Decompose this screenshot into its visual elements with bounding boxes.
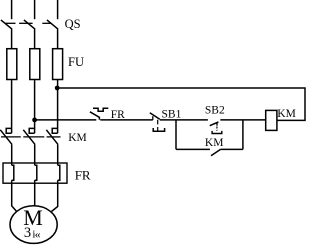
thermal relay FR heater jog pole 1 [12,165,14,180]
button SB1 fixed contact tick [152,116,154,120]
switch QS linkage dash 1 [6,22,16,24]
wire L2 FR to motor [34,180,36,206]
node control tap on L2 [32,118,37,123]
wire branch left vertical [175,120,177,149]
contact KM main pole 1 arc bracket [6,128,11,133]
contact KM linkage dash 3 [47,136,61,138]
switch QS linkage dash 2 [19,22,32,24]
svg-text:KM: KM [68,132,87,144]
wire SB2 to KM coil [220,119,265,121]
wire L2 QS to FU [34,29,36,49]
motor M body [10,206,57,244]
contact KM linkage dash 1 [1,136,21,138]
svg-text:FU: FU [68,55,84,69]
button SB1 blade [150,113,160,120]
wire L3 QS to FU [57,29,59,49]
wire L1 FR to motor [12,180,17,212]
fuse FU pole 3 [53,49,63,80]
wire L1 KM to FR heater [11,144,13,165]
node control tap on L3 [55,86,60,91]
button SB1 stem [157,120,159,131]
contact KM main pole 3 blade [46,130,58,145]
svg-text:QS: QS [65,17,81,31]
thermal relay contact FR notched bar [93,108,108,111]
wire FR to SB1 [100,119,153,121]
switch QS linkage dash 3 [42,22,50,24]
wire L2 FU to KM contact [34,80,36,134]
phase line L1 top wire [11,0,13,19]
wire branch right vertical [242,120,244,149]
wire L3 KM to FR heater [57,144,59,165]
wire L2 KM to FR heater [34,144,36,165]
thermal relay FR heater jog pole 3 [58,165,60,180]
contact KM main pole 2 blade [23,130,35,145]
svg-text:SB2: SB2 [205,104,225,116]
svg-text:SB1: SB1 [162,108,182,120]
switch QS pole 2 blade [24,20,35,29]
button SB2 cap [212,131,222,134]
contact KM auxiliary blade [211,149,221,155]
button SB2 moving contact tick [216,122,218,126]
button SB2 blade [210,122,219,126]
contact KM linkage dash 2 [23,136,44,138]
wire branch bottom left [176,148,210,150]
contact KM main pole 2 arc bracket [29,128,34,133]
coil KM [266,110,277,130]
button SB2 stem [216,127,218,131]
thermal relay FR heater jog pole 2 [35,165,37,180]
contact KM main pole 3 arc bracket [52,128,57,133]
phase line L2 top wire [34,0,36,19]
switch QS pole 1 blade [1,20,12,29]
wire L1 QS to FU [11,29,13,49]
thermal relay contact FR blade [90,112,100,120]
svg-text:KM: KM [205,137,224,149]
wire SB1 to SB2 [160,119,208,121]
wire L3 FR to motor [52,180,58,211]
svg-text:FR: FR [75,167,91,182]
svg-text:FR: FR [111,109,125,121]
wire control top rail [57,88,305,120]
wire L1 FU to KM contact [11,80,13,134]
wire control rail to FR contact [35,119,97,121]
svg-text:KM: KM [277,108,296,120]
switch QS pole 3 blade [47,20,58,29]
phase line L3 top wire [57,0,59,19]
button SB1 cap [153,128,164,131]
fuse FU pole 2 [30,49,40,80]
contact KM main pole 1 blade [0,130,12,145]
wire L3 FU to KM contact [57,80,59,134]
fuse FU pole 1 [7,49,17,80]
svg-text:«: « [35,227,41,241]
thermal relay FR heater box [3,163,67,183]
wire branch bottom right [221,148,243,150]
svg-text:3: 3 [24,225,31,241]
